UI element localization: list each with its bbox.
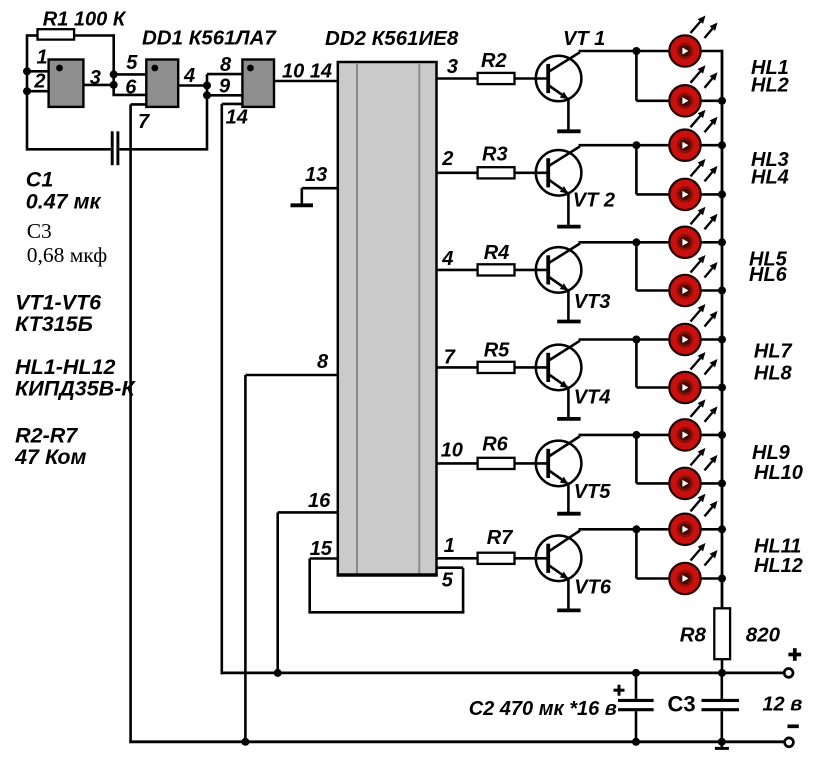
wire DD2 pin 7 to R5 bbox=[437, 366, 478, 369]
svg-text:3: 3 bbox=[447, 56, 458, 78]
label HL9 bbox=[752, 442, 791, 464]
label HL list bbox=[15, 355, 115, 379]
LED HL2 bbox=[669, 65, 717, 116]
wire DD2 pin 15 to pin 5 loop bbox=[308, 559, 464, 613]
svg-text:5: 5 bbox=[442, 570, 454, 592]
svg-text:1: 1 bbox=[37, 47, 48, 69]
minus sign supply bbox=[788, 724, 799, 728]
label HL type bbox=[15, 376, 136, 400]
label R6 bbox=[482, 434, 508, 456]
wire pin 3 output bbox=[83, 84, 113, 87]
svg-text:R6: R6 bbox=[482, 434, 508, 456]
label pin 14 DD1 bbox=[226, 107, 248, 129]
transistor VT2 bbox=[536, 146, 582, 226]
svg-text:1: 1 bbox=[444, 535, 455, 557]
svg-text:R5: R5 bbox=[484, 339, 510, 361]
label pin 1 DD2 bbox=[444, 535, 455, 557]
label HL1 bbox=[751, 57, 789, 79]
plus terminal bbox=[784, 669, 793, 678]
svg-text:5: 5 bbox=[126, 52, 138, 74]
ground VT3 bbox=[557, 320, 580, 324]
wire pin 10 output to DD2 pin 14 bbox=[274, 80, 338, 83]
wire pin 8 input bbox=[207, 73, 242, 76]
label C1 value bbox=[26, 190, 102, 214]
wire DD2 pin 8 to minus rail bbox=[241, 375, 337, 746]
junction bus row1 4 bbox=[718, 336, 726, 344]
resistor R1 bbox=[27, 29, 114, 39]
ground VT2 bbox=[557, 225, 580, 229]
gate DD1.1 bbox=[49, 60, 84, 107]
label HL2 bbox=[751, 75, 789, 97]
LED HL3 bbox=[669, 110, 717, 161]
label HL10 bbox=[754, 462, 803, 484]
plus sign supply bbox=[788, 648, 801, 661]
wire DD2 pin 3 to R2 bbox=[437, 77, 478, 80]
label pin 16 bbox=[308, 490, 331, 512]
svg-text:6: 6 bbox=[125, 76, 137, 98]
transistor VT3 bbox=[536, 244, 582, 322]
svg-text:16: 16 bbox=[308, 490, 331, 512]
LED HL5 bbox=[669, 207, 717, 258]
svg-text:HL10: HL10 bbox=[754, 462, 803, 484]
wire pin 9 input bbox=[207, 94, 242, 97]
label HL3 bbox=[751, 149, 789, 171]
svg-text:13: 13 bbox=[305, 164, 327, 186]
ground VT5 bbox=[557, 512, 580, 516]
label R value bbox=[14, 445, 86, 469]
wire LED pair column VT6 bbox=[635, 529, 638, 578]
LED HL4 bbox=[669, 159, 717, 210]
svg-text:HL7: HL7 bbox=[754, 341, 793, 363]
wire DD2 pin 1 to R7 bbox=[437, 557, 478, 560]
wire C3 stub below rail bbox=[715, 742, 729, 749]
gate DD1.2 bbox=[146, 60, 178, 107]
label C2 plus bbox=[614, 685, 625, 696]
wire DD2 pin 4 to R4 bbox=[437, 269, 478, 272]
label pin 2 bbox=[33, 71, 45, 93]
plus rail bbox=[221, 669, 785, 677]
label VT1 bbox=[563, 28, 605, 50]
label C2 value bbox=[469, 698, 617, 720]
label R2 bbox=[481, 50, 507, 72]
wire DD1 pin 14 to plus rail bbox=[222, 104, 244, 674]
minus rail bbox=[129, 740, 784, 743]
wire LED bus vertical bbox=[721, 50, 724, 609]
wire LED pair column VT4 bbox=[635, 340, 638, 388]
label pin 10 DD2 bbox=[441, 440, 463, 462]
svg-text:C3: C3 bbox=[668, 692, 696, 717]
label HL7 bbox=[754, 341, 793, 363]
label 12v bbox=[762, 694, 802, 716]
wire collector VT4 to LED row bbox=[579, 336, 723, 344]
svg-text:HL4: HL4 bbox=[751, 167, 789, 189]
LED HL7 bbox=[669, 304, 717, 355]
svg-text:КИПД35В-К: КИПД35В-К bbox=[15, 376, 136, 400]
svg-text:9: 9 bbox=[219, 76, 231, 98]
wire pin 6 input bbox=[112, 94, 146, 97]
label pin 9 bbox=[219, 76, 231, 98]
label pin 8 bbox=[220, 54, 232, 76]
svg-text:C1: C1 bbox=[26, 168, 53, 192]
ground VT6 bbox=[557, 609, 580, 613]
capacitor C2 bbox=[618, 673, 654, 746]
label R8 value bbox=[746, 624, 781, 647]
wire collector VT1 to LED row bbox=[579, 47, 723, 55]
svg-text:VT6: VT6 bbox=[574, 577, 612, 599]
wire pin 2 input bbox=[23, 87, 49, 95]
capacitor C1 bbox=[27, 131, 207, 165]
label pin 2 DD2 bbox=[441, 148, 453, 170]
label HL11 bbox=[754, 536, 801, 558]
svg-text:7: 7 bbox=[444, 347, 456, 369]
wire LED pair column VT5 bbox=[635, 435, 638, 484]
label pin 8 DD2 bbox=[317, 351, 329, 373]
label pin 3 DD2 bbox=[447, 56, 458, 78]
wire collector VT6 to LED row bbox=[579, 525, 723, 533]
label R list bbox=[15, 424, 78, 448]
svg-text:HL1-HL12: HL1-HL12 bbox=[15, 355, 115, 379]
label VT5 bbox=[574, 481, 612, 503]
IC DD2 К561ИЕ8 bbox=[337, 62, 438, 575]
label HL4 bbox=[751, 167, 789, 189]
svg-text:2: 2 bbox=[33, 71, 45, 93]
svg-text:С3: С3 bbox=[27, 219, 52, 243]
svg-text:С2 470 мк *16 в: С2 470 мк *16 в bbox=[469, 698, 617, 720]
junction bus row1 2 bbox=[718, 141, 726, 149]
svg-text:14: 14 bbox=[226, 107, 248, 129]
resistor R4 bbox=[478, 264, 549, 275]
svg-text:HL6: HL6 bbox=[749, 264, 788, 286]
label pin 3 bbox=[90, 67, 101, 89]
svg-text:R7: R7 bbox=[487, 527, 513, 549]
wire LED pair column VT3 bbox=[635, 242, 638, 290]
label R5 bbox=[484, 339, 510, 361]
label VT6 bbox=[574, 577, 612, 599]
LED HL12 bbox=[669, 543, 717, 594]
label pin 5 bbox=[126, 52, 138, 74]
wire collector VT5 to LED row bbox=[579, 431, 723, 439]
svg-text:VT5: VT5 bbox=[574, 481, 612, 503]
gate DD1.3 bbox=[242, 60, 274, 107]
ground VT1 bbox=[557, 129, 580, 133]
label R1 value bbox=[43, 9, 127, 31]
capacitor C3 bbox=[702, 673, 740, 746]
svg-text:10: 10 bbox=[441, 440, 463, 462]
label R8 bbox=[680, 624, 707, 647]
junction bus row2 6 bbox=[718, 575, 726, 583]
svg-text:8: 8 bbox=[317, 351, 329, 373]
svg-text:15: 15 bbox=[310, 538, 333, 560]
label DD2 bbox=[325, 27, 459, 50]
wire left vertical from R1 to C1 (node pins 1,2) bbox=[26, 34, 29, 150]
svg-text:VT 1: VT 1 bbox=[563, 28, 605, 50]
label VT list bbox=[15, 290, 102, 314]
LED HL11 bbox=[669, 494, 717, 545]
junction bus row2 1 bbox=[718, 97, 726, 105]
junction bus row2 2 bbox=[718, 190, 726, 198]
label R4 bbox=[484, 242, 510, 264]
junction bus row2 4 bbox=[718, 384, 726, 392]
minus terminal bbox=[785, 738, 794, 747]
label pin 6 bbox=[125, 76, 137, 98]
label pin 13 bbox=[305, 164, 327, 186]
svg-text:R3: R3 bbox=[482, 144, 508, 166]
transistor VT5 bbox=[536, 436, 582, 514]
svg-text:7: 7 bbox=[138, 111, 150, 133]
wire LED pair column VT1 bbox=[635, 51, 638, 101]
label VT type bbox=[15, 312, 93, 336]
svg-text:R8: R8 bbox=[680, 624, 707, 647]
label HL8 bbox=[754, 363, 793, 385]
wire second LED row VT3 bbox=[636, 289, 722, 292]
ground VT4 bbox=[557, 417, 580, 421]
svg-text:0.47 мк: 0.47 мк bbox=[26, 190, 102, 214]
label pin 4 bbox=[183, 65, 195, 87]
svg-text:VT 2: VT 2 bbox=[573, 190, 615, 212]
label C3ser bbox=[27, 219, 52, 243]
label C1 bbox=[26, 168, 53, 192]
junction bus row2 3 bbox=[718, 287, 726, 295]
svg-text:HL8: HL8 bbox=[754, 363, 793, 385]
label HL12 bbox=[754, 555, 803, 577]
svg-text:HL12: HL12 bbox=[754, 555, 803, 577]
label pins 10 14 bbox=[282, 61, 332, 83]
wire pin 5 input bbox=[114, 73, 147, 76]
label HL5 bbox=[749, 249, 788, 271]
node junction dots pins 5/3 column bbox=[110, 70, 118, 89]
wire second LED row VT1 bbox=[636, 100, 722, 103]
wire R1 right down to gate inputs column bbox=[112, 34, 115, 95]
svg-text:DD1 К561ЛА7: DD1 К561ЛА7 bbox=[142, 27, 277, 50]
label VT4 bbox=[574, 387, 611, 409]
label pin 1 bbox=[37, 47, 48, 69]
transistor VT4 bbox=[536, 341, 582, 419]
wire collector VT2 to LED row bbox=[579, 141, 723, 149]
svg-text:4: 4 bbox=[183, 65, 195, 87]
label C3 bbox=[668, 692, 696, 717]
LED HL1 bbox=[669, 16, 717, 67]
svg-text:HL9: HL9 bbox=[752, 442, 791, 464]
svg-text:4: 4 bbox=[441, 248, 453, 270]
label pin 5 DD2 bbox=[442, 570, 454, 592]
label pin 7 DD2 bbox=[444, 347, 456, 369]
svg-text:R2: R2 bbox=[481, 50, 507, 72]
wire second LED row VT4 bbox=[636, 386, 722, 389]
svg-text:8: 8 bbox=[220, 54, 232, 76]
svg-text:R1 100 К: R1 100 К bbox=[43, 9, 127, 31]
svg-text:820: 820 bbox=[746, 624, 781, 647]
wire second LED row VT2 bbox=[636, 193, 722, 196]
svg-text:КТ315Б: КТ315Б bbox=[15, 312, 93, 336]
svg-text:47 Ком: 47 Ком bbox=[14, 445, 86, 469]
junction bus row1 5 bbox=[718, 431, 726, 439]
wire DD2 pin 16 to plus rail bbox=[274, 512, 338, 677]
transistor VT1 bbox=[536, 52, 582, 131]
LED HL9 bbox=[669, 399, 717, 450]
label VT3 bbox=[574, 291, 611, 313]
resistor R3 bbox=[478, 167, 549, 178]
svg-text:3: 3 bbox=[90, 67, 101, 89]
wire gate3 inputs column and C1 riser bbox=[203, 74, 211, 151]
svg-text:HL2: HL2 bbox=[751, 75, 789, 97]
wire second LED row VT6 bbox=[636, 577, 722, 580]
wire DD2 pin 13 to ground bbox=[302, 188, 338, 204]
label pin 7 DD1 bbox=[138, 111, 150, 133]
wire LED pair column VT2 bbox=[635, 145, 638, 194]
svg-text:12 в: 12 в bbox=[762, 694, 802, 716]
junction bus row2 5 bbox=[718, 479, 726, 487]
label R7 bbox=[487, 527, 513, 549]
junction bus row1 3 bbox=[718, 238, 726, 246]
label pin 15 bbox=[310, 538, 333, 560]
resistor R8 bbox=[714, 608, 730, 673]
junction bus row1 6 bbox=[718, 525, 726, 533]
svg-text:R2-R7: R2-R7 bbox=[15, 424, 78, 448]
resistor R5 bbox=[478, 362, 549, 373]
wire pin 4 output bbox=[178, 84, 207, 87]
label HL6 bbox=[749, 264, 788, 286]
svg-text:VT1-VT6: VT1-VT6 bbox=[15, 290, 102, 314]
resistor R2 bbox=[478, 73, 549, 84]
resistor R6 bbox=[478, 458, 549, 469]
LED HL10 bbox=[669, 448, 717, 499]
svg-text:DD2 К561ИЕ8: DD2 К561ИЕ8 bbox=[325, 27, 459, 50]
LED HL6 bbox=[669, 255, 717, 306]
label C3ser value bbox=[27, 243, 108, 267]
label pin 4 DD2 bbox=[441, 248, 453, 270]
ground symbol pin 13 bbox=[291, 203, 314, 207]
svg-text:10 14: 10 14 bbox=[282, 61, 332, 83]
resistor R7 bbox=[478, 553, 549, 564]
svg-text:VT3: VT3 bbox=[574, 291, 611, 313]
wire DD2 pin 10 to R6 bbox=[437, 462, 478, 465]
wire collector VT3 to LED row bbox=[579, 238, 723, 246]
wire DD1 pin 7 to minus rail bbox=[131, 104, 148, 743]
svg-text:2: 2 bbox=[441, 148, 453, 170]
transistor VT6 bbox=[536, 531, 582, 611]
label VT2 bbox=[573, 190, 615, 212]
label DD1 bbox=[142, 27, 277, 50]
wire second LED row VT5 bbox=[636, 482, 722, 485]
label R3 bbox=[482, 144, 508, 166]
svg-text:VT4: VT4 bbox=[574, 387, 611, 409]
svg-text:0,68 мкф: 0,68 мкф bbox=[27, 243, 108, 267]
LED HL8 bbox=[669, 352, 717, 403]
wire DD2 pin 2 to R3 bbox=[437, 172, 478, 175]
svg-text:R4: R4 bbox=[484, 242, 510, 264]
wire pin 1 input bbox=[23, 67, 49, 75]
